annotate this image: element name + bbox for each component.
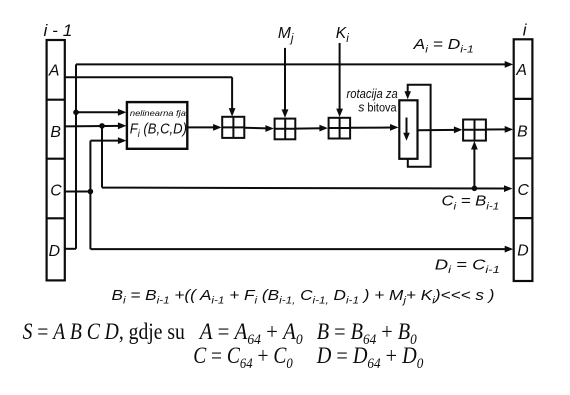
svg-text:Mj: Mj — [278, 25, 294, 45]
arrowhead into adder2 left — [265, 125, 274, 132]
svg-text:A: A — [48, 63, 60, 80]
svg-text:rotacija za: rotacija za — [347, 87, 398, 101]
svg-text:B: B — [517, 123, 528, 140]
arrowhead into F top — [118, 109, 127, 116]
wire B feedback up into adder4 — [473, 147, 475, 189]
rotation inner arrow — [403, 118, 410, 141]
arrowhead into adder1 top — [229, 108, 236, 117]
arrowhead into adder4 left — [454, 126, 463, 133]
svg-text:i: i — [523, 21, 528, 40]
arrowhead into adder3 left — [319, 125, 328, 132]
register i frame — [514, 39, 533, 281]
wire C stub — [65, 191, 91, 193]
wire top A_i=D_i-1 — [76, 63, 506, 65]
wire F bottom input — [90, 140, 120, 142]
svg-text:C = C64 + C0: C = C64 + C0 — [193, 343, 293, 372]
rotation box — [399, 100, 417, 159]
arrowhead into adder1 left — [213, 124, 222, 131]
arrowhead into adder2 top — [282, 109, 289, 118]
svg-text:B: B — [50, 124, 61, 141]
arrowhead into adder4 bottom — [471, 141, 478, 150]
rotation feedback loop — [404, 85, 430, 167]
adder2 — [275, 119, 296, 140]
wire A drop into adder1 — [231, 77, 233, 110]
wire adder4 output to B — [486, 128, 506, 130]
wire D riser — [75, 64, 77, 248]
svg-text:Ci = Bi-1: Ci = Bi-1 — [442, 193, 500, 213]
arrowhead into right B — [505, 126, 514, 133]
wire adder2 to adder3 — [295, 127, 322, 129]
svg-text:Bi = Bi-1 +(( Ai-1 + Fi (Bi-1,: Bi = Bi-1 +(( Ai-1 + Fi (Bi-1, Ci-1, Di-… — [112, 288, 495, 307]
svg-text:s bitova: s bitova — [358, 100, 397, 115]
F box — [127, 102, 187, 149]
wire D_i=C_i-1 — [90, 248, 505, 250]
junction dot C riser — [88, 189, 94, 195]
wire adder1 to adder2 — [244, 127, 267, 130]
svg-text:i - 1: i - 1 — [44, 21, 73, 40]
arrowhead into F mid — [118, 122, 127, 129]
junction dot B riser — [99, 123, 105, 129]
svg-text:D: D — [517, 243, 528, 260]
register i-1 frame — [47, 40, 65, 280]
junction dot D to F — [73, 110, 79, 116]
wire C riser — [89, 141, 91, 250]
wire D stub — [65, 248, 76, 250]
svg-text:C: C — [50, 182, 62, 199]
arrowhead into adder3 top — [336, 109, 343, 118]
svg-text:C: C — [518, 182, 530, 199]
junction dot B feedback — [472, 186, 478, 192]
arrowhead into right A — [505, 61, 514, 68]
arrowhead into right C — [504, 185, 513, 192]
wire A(i-1) horizontal — [65, 76, 232, 78]
wire F output — [187, 126, 215, 128]
wire F top input — [76, 111, 120, 113]
svg-text:nelinearna fja: nelinearna fja — [130, 109, 186, 118]
adder3 — [329, 118, 351, 139]
wire adder3 to rotation box — [350, 127, 391, 129]
wire rotation output to adder4 — [418, 129, 457, 131]
wire B riser down — [101, 126, 103, 188]
wire K_i drop — [339, 43, 341, 111]
wire M_j drop — [284, 48, 286, 112]
adder1 — [222, 117, 244, 138]
adder4 — [463, 120, 486, 141]
svg-text:A: A — [515, 62, 527, 79]
svg-text:S = A B C D, gdje su: S = A B C D, gdje su — [23, 319, 186, 344]
wire C_i=B_i-1 — [102, 187, 505, 190]
svg-text:Di = Ci-1: Di = Ci-1 — [435, 256, 500, 276]
wire B to F — [65, 125, 120, 128]
arrowhead into right D — [505, 246, 514, 253]
svg-text:Ki: Ki — [336, 25, 349, 45]
arrowhead into rotation box — [390, 124, 399, 131]
arrowhead into F bottom — [118, 137, 127, 144]
svg-text:D: D — [49, 243, 60, 260]
svg-text:Ai = Di-1: Ai = Di-1 — [413, 36, 474, 56]
